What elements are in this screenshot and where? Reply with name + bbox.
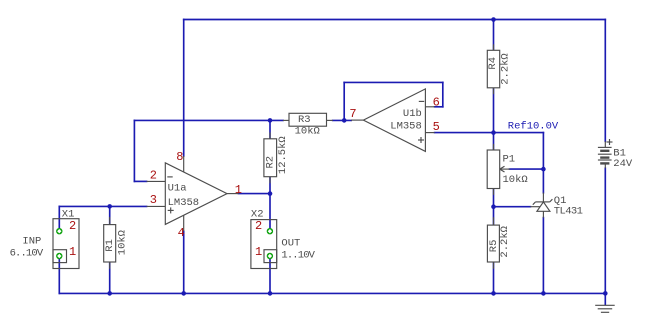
wire U1a pin4 to bottom rail xyxy=(183,231,185,293)
wire output down to X2 pin2 xyxy=(269,194,271,232)
top lead xyxy=(604,141,606,147)
svg-text:12.5kΩ: 12.5kΩ xyxy=(277,136,289,174)
plus sign xyxy=(607,141,613,143)
svg-text:2: 2 xyxy=(255,219,262,233)
wiper arrow xyxy=(500,168,510,170)
svg-text:LM358: LM358 xyxy=(168,197,200,209)
wire R4 column xyxy=(493,20,495,133)
junction dot ref net xyxy=(491,130,496,135)
svg-text:P1: P1 xyxy=(503,154,516,166)
wire wiper horizontal xyxy=(510,168,544,170)
wire top rail horizontal xyxy=(184,19,606,21)
svg-text:10kΩ: 10kΩ xyxy=(295,126,320,138)
wire X1 pin2 riser xyxy=(58,206,60,231)
svg-text:U1b: U1b xyxy=(403,108,422,120)
ground xyxy=(595,305,615,312)
triangle body xyxy=(363,89,425,151)
wire ref corner down to wiper xyxy=(542,133,544,170)
resistor R3 xyxy=(283,113,333,137)
pin 6 stub xyxy=(425,106,434,108)
wire pin8 vertical to top rail xyxy=(183,20,185,157)
svg-text:24V: 24V xyxy=(613,158,633,170)
svg-text:R3: R3 xyxy=(298,114,311,126)
pin 5 stub xyxy=(425,132,434,134)
wire P1 column xyxy=(493,133,495,207)
pin 7 stub xyxy=(351,119,363,121)
junction dot R2 top xyxy=(268,118,273,123)
pad pin2 xyxy=(267,228,273,234)
bottom lead xyxy=(604,164,606,168)
wire Q1 anode to bottom rail xyxy=(542,218,544,294)
wire U1a pin3 net horizontal xyxy=(59,205,146,207)
wire ref net to right corner xyxy=(494,132,544,134)
wire R3 right to U1b pin7 xyxy=(333,119,352,121)
svg-text:10kΩ: 10kΩ xyxy=(503,174,528,186)
svg-text:Ref10.0V: Ref10.0V xyxy=(508,121,559,133)
svg-text:8: 8 xyxy=(176,150,183,164)
junction dot R1 top xyxy=(107,204,112,209)
plus sign xyxy=(418,139,424,141)
svg-text:5: 5 xyxy=(433,120,440,134)
wire X1 pin1 to bottom rail xyxy=(58,256,60,293)
svg-text:R1: R1 xyxy=(104,239,116,252)
junction dot rail X2 xyxy=(268,291,273,296)
junction dot P1 bottom node xyxy=(491,204,496,209)
junction dot rail R5 xyxy=(491,291,496,296)
triangle xyxy=(537,202,550,211)
svg-text:R5: R5 xyxy=(488,240,500,253)
svg-text:2: 2 xyxy=(69,219,76,233)
wire ground stub xyxy=(604,293,606,304)
svg-text:INP: INP xyxy=(22,235,41,247)
svg-text:OUT: OUT xyxy=(281,237,300,249)
plate long 1 xyxy=(598,146,612,148)
battery B1 xyxy=(598,139,633,170)
svg-text:2.2kΩ: 2.2kΩ xyxy=(499,53,511,85)
pin1 square xyxy=(53,250,67,263)
svg-text:1: 1 xyxy=(255,245,262,259)
wire battery negative to bottom rail xyxy=(604,168,606,293)
svg-text:6..10V: 6..10V xyxy=(10,247,44,259)
wire R2 column xyxy=(269,120,271,193)
bar left tick xyxy=(533,202,536,205)
plus sign xyxy=(168,209,174,211)
potentiometer P1 xyxy=(487,144,528,195)
plate short 1 xyxy=(600,150,609,152)
wire feedback riser xyxy=(343,82,345,120)
wire node to Q1 ref pin xyxy=(494,206,531,208)
wire feedback top xyxy=(344,81,443,83)
junction dot output node xyxy=(268,191,273,196)
pad pin1 xyxy=(56,253,62,259)
junction dot feedback/pin7 xyxy=(342,118,347,123)
wire pin2 riser xyxy=(133,120,135,181)
plate short 2 xyxy=(600,156,609,158)
shunt regulator Q1 TL431 xyxy=(530,193,582,218)
pin1 square xyxy=(264,250,277,263)
junction dot rail Q1 xyxy=(541,291,546,296)
plate long 2 xyxy=(598,153,612,155)
svg-text:1: 1 xyxy=(235,183,242,197)
junction dot R4 top rail xyxy=(491,17,496,22)
wire wiper node down to Q1 cathode xyxy=(542,169,544,193)
plate short 3 xyxy=(600,162,609,164)
svg-text:10kΩ: 10kΩ xyxy=(116,230,128,255)
pin 3 stub xyxy=(147,205,166,207)
resistor R2 xyxy=(264,132,289,183)
cathode bar xyxy=(536,201,550,203)
connector X2 xyxy=(251,209,316,269)
resistor R5 xyxy=(487,217,511,269)
pin 4 stub xyxy=(183,215,185,231)
junction dot rail R1 xyxy=(107,291,112,296)
wire bottom rail xyxy=(59,292,605,294)
pin 2 stub xyxy=(147,180,166,182)
svg-text:R4: R4 xyxy=(487,57,499,70)
svg-text:6: 6 xyxy=(433,95,440,109)
cathode stub xyxy=(542,193,544,202)
svg-text:7: 7 xyxy=(349,107,356,121)
svg-text:3: 3 xyxy=(150,193,157,207)
wire ref net to U1b pin5 xyxy=(435,132,494,134)
resistor R4 xyxy=(487,44,511,94)
connector X1 xyxy=(10,209,79,269)
wire feedback right drop xyxy=(442,82,444,106)
minus sign xyxy=(167,176,172,178)
triangle body xyxy=(165,163,227,225)
pad pin2 xyxy=(56,228,62,234)
op-amp U1a xyxy=(147,150,242,240)
anode stub xyxy=(542,211,544,217)
pin 1 stub xyxy=(227,193,239,195)
wire U1a pin2 stub horizontal xyxy=(134,180,146,182)
bar right tick xyxy=(550,199,553,202)
svg-text:2.2kΩ: 2.2kΩ xyxy=(499,226,511,258)
pad pin1 xyxy=(267,253,273,259)
svg-text:1..10V: 1..10V xyxy=(281,249,315,261)
ref pin xyxy=(530,206,540,208)
wire feedback to pin6 xyxy=(435,106,443,108)
wire battery positive drop xyxy=(604,20,606,142)
svg-text:2: 2 xyxy=(150,169,157,183)
junction dot rail pin4 xyxy=(181,291,186,296)
minus sign xyxy=(419,100,424,102)
junction dot rail ground xyxy=(603,291,608,296)
svg-text:1: 1 xyxy=(69,245,76,259)
plate long 3 xyxy=(598,159,612,161)
junction dot wiper xyxy=(541,167,546,172)
wire X2 pin1 to bottom rail xyxy=(269,256,271,293)
wire R2/R3 net horizontal xyxy=(134,119,283,121)
svg-text:LM358: LM358 xyxy=(390,121,422,133)
svg-text:R2: R2 xyxy=(265,156,277,169)
svg-text:U1a: U1a xyxy=(168,182,187,194)
op-amp U1b xyxy=(349,89,439,151)
svg-text:TL431: TL431 xyxy=(554,206,583,218)
resistor R1 xyxy=(104,217,129,269)
svg-text:4: 4 xyxy=(178,226,185,240)
wire R5 column to bottom rail xyxy=(493,207,495,294)
wire R1 column xyxy=(109,206,111,293)
wire U1a output net xyxy=(239,193,271,195)
pin 8 stub xyxy=(183,156,185,172)
